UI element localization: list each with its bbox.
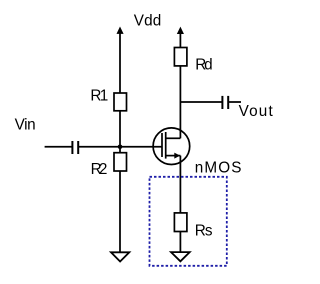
capacitor C1 (input coupling)	[72, 141, 78, 154]
svg-text:R2: R2	[91, 161, 108, 178]
ground (right, inside dashed box)	[171, 252, 190, 261]
resistor R1	[114, 93, 127, 111]
svg-text:nMOS: nMOS	[195, 159, 242, 176]
svg-text:Rd: Rd	[195, 57, 213, 74]
transistor Q1 nMOS	[153, 128, 190, 165]
svg-text:Vdd: Vdd	[134, 12, 162, 29]
capacitor C2 (output coupling)	[222, 96, 228, 109]
resistor R2	[114, 153, 127, 171]
svg-text:Rs: Rs	[195, 222, 213, 239]
wire Rd to drain	[179, 66, 181, 138]
svg-text:Vin: Vin	[15, 116, 36, 133]
dashed box around source network	[150, 177, 227, 266]
resistor Rs	[174, 213, 187, 232]
power arrow Vdd (right rail)	[177, 27, 184, 48]
svg-text:Vout: Vout	[239, 103, 274, 120]
resistor Rd	[174, 48, 187, 66]
wire source to Rs	[179, 156, 181, 213]
wire capacitor to gate	[79, 146, 162, 148]
svg-text:R1: R1	[90, 88, 108, 105]
ground (left)	[111, 252, 129, 261]
wire R2 to ground	[119, 171, 121, 252]
power arrow Vdd (left rail)	[117, 27, 124, 94]
wire output branch	[180, 101, 221, 103]
node junction gate/R1/R2	[118, 145, 123, 150]
wire R1 to junction	[119, 111, 121, 153]
wire input left	[45, 146, 72, 148]
wire Rs to ground	[179, 232, 181, 253]
wire capacitor to Vout	[229, 101, 241, 103]
